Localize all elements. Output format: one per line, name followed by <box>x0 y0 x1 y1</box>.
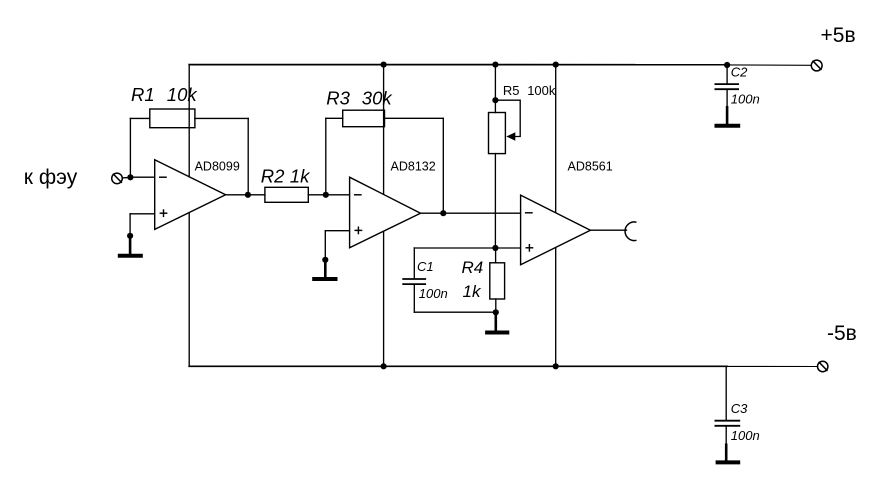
wire bottom -5v rail <box>189 365 727 367</box>
wire supply vertical V3 <box>555 65 557 367</box>
svg-text:R4: R4 <box>462 258 484 277</box>
wire supply vertical V1 <box>188 65 190 367</box>
wire inverting input AD8099 <box>130 176 154 178</box>
connector output socket <box>625 222 636 241</box>
svg-text:R3: R3 <box>326 87 350 108</box>
wire C2 branch <box>726 65 728 84</box>
svg-text:R5: R5 <box>503 83 520 98</box>
ground at AD8099 plus input <box>118 236 143 256</box>
wire C1 top horizontal <box>414 247 495 249</box>
node R4 bottom junction <box>493 309 499 315</box>
svg-text:100n: 100n <box>731 91 760 106</box>
wire AD8132 plus input vertical to ground <box>324 231 326 261</box>
svg-text:AD8132: AD8132 <box>391 159 436 173</box>
svg-text:C1: C1 <box>417 259 434 274</box>
op-amp U1 AD8099 <box>155 160 226 230</box>
potentiometer R5 <box>489 113 506 154</box>
wire bottom -5v terminal stub <box>726 365 818 367</box>
node R5 wiper junction <box>492 97 498 103</box>
node AD8099 output junction <box>245 192 251 198</box>
wire C1 left vertical top <box>413 248 415 278</box>
wire R5 bottom to plus node <box>494 154 496 248</box>
svg-text:10k: 10k <box>167 84 199 105</box>
wire R4 top vertical <box>495 248 497 263</box>
resistor R1 <box>150 109 195 128</box>
wire AD8132 output to AD8561 <box>421 212 521 214</box>
wire top +5v terminal stub <box>727 64 811 66</box>
wire R2 to AD8132 <box>308 194 349 196</box>
wire R3 left vertical <box>325 118 327 195</box>
capacitor C2 <box>715 83 740 85</box>
svg-text:AD8561: AD8561 <box>568 160 613 174</box>
node AD8132 output junction <box>440 210 446 216</box>
resistor R3 <box>343 110 385 127</box>
resistor R2 <box>265 187 308 202</box>
wire R3 feedback vertical <box>442 118 444 213</box>
node top rail V2 junction <box>381 62 387 68</box>
svg-text:1k: 1k <box>290 165 311 186</box>
wire C3 branch <box>725 366 727 420</box>
svg-text:R2: R2 <box>261 165 285 186</box>
node ground2 junction <box>322 257 328 263</box>
wire R3 left horizontal <box>326 117 343 119</box>
wire R1 feedback vertical <box>247 118 249 194</box>
node bottom rail V2 junction <box>381 363 387 369</box>
wire AD8099 plus input vertical to ground <box>129 214 131 237</box>
svg-text:C2: C2 <box>731 64 748 79</box>
svg-text:-5в: -5в <box>827 322 857 345</box>
connector input к фэу <box>112 173 123 184</box>
node plus input AD8561 junction <box>492 245 498 251</box>
wire C1 bottom horizontal <box>414 311 496 313</box>
node top rail C2 junction <box>724 62 730 68</box>
wire AD8099 plus input horizontal <box>130 213 155 215</box>
wire AD8132 plus input horizontal <box>325 230 349 232</box>
svg-text:1k: 1k <box>463 282 482 301</box>
capacitor C1 <box>402 278 426 280</box>
op-amp U2 AD8132 <box>350 177 421 248</box>
wire top +5v rail <box>189 64 728 66</box>
resistor R4 <box>490 263 505 299</box>
connector -5v terminal <box>818 361 828 371</box>
svg-text:C3: C3 <box>731 401 748 416</box>
wire R3 right horizontal <box>385 117 444 119</box>
svg-text:100k: 100k <box>527 83 556 98</box>
wire R1 right horizontal <box>195 117 248 119</box>
svg-text:AD8099: AD8099 <box>195 159 240 173</box>
wire R4 bottom vertical <box>495 299 497 312</box>
comparator U3 AD8561 <box>521 195 591 265</box>
wire AD8099 output <box>226 194 265 196</box>
node ground1 junction <box>127 233 133 239</box>
wire AD8561 output <box>590 229 626 231</box>
wire supply vertical V2 <box>383 65 385 367</box>
node top rail V3 junction <box>553 62 559 68</box>
svg-text:30k: 30k <box>362 88 394 109</box>
node bottom rail V3 junction <box>553 363 559 369</box>
wire R1 left vertical <box>129 118 131 177</box>
ground at C2 <box>715 106 741 126</box>
node AD8132 input junction <box>323 192 329 198</box>
wire C3 below <box>725 427 727 445</box>
svg-text:100n: 100n <box>419 286 448 301</box>
node input junction <box>127 174 133 180</box>
svg-text:+5в: +5в <box>821 24 856 47</box>
ground at C3 <box>716 444 741 463</box>
ground at R4 bottom <box>485 313 509 333</box>
wire plus node to AD8561 <box>495 247 520 249</box>
wire C1 left vertical bottom <box>413 285 415 312</box>
wire R5 wiper loop <box>495 100 520 136</box>
svg-text:R1: R1 <box>131 84 155 105</box>
svg-text:100n: 100n <box>731 428 760 443</box>
wire R1 left horizontal <box>130 117 149 119</box>
wire R5 top vertical <box>494 65 496 113</box>
capacitor C3 <box>715 420 741 422</box>
node top rail R5 junction <box>492 62 498 68</box>
wire C2 below <box>726 90 728 107</box>
ground at AD8132 plus input <box>312 260 337 279</box>
wire input stub <box>122 176 130 179</box>
connector +5v terminal <box>811 60 822 71</box>
svg-text:к фэу: к фэу <box>24 166 78 189</box>
